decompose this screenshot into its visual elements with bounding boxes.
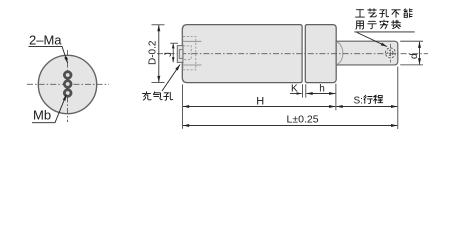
glyph 气 [153,92,162,100]
note 工艺孔不能/用于安装 [356,9,413,29]
inner tube line bottom [183,64,202,66]
glyph 工 [356,10,365,17]
glyph 装 [392,20,401,28]
hidden bore dashed outer [183,37,196,70]
rod end ellipse arc [337,42,343,64]
glyph 能 [404,9,412,17]
svg-text:d: d [409,53,420,59]
dimension J line [172,43,174,62]
glyph 行 [364,95,373,103]
svg-text:H: H [256,96,264,108]
dimension h line [307,93,336,95]
glyph 不 [392,10,400,17]
process hole dashed inner circle [388,50,393,55]
svg-text:L±0.25: L±0.25 [287,113,319,125]
svg-text:K: K [291,83,298,94]
K extension tick right [305,84,307,97]
dimension d line [419,42,421,65]
glyph 孔(note) [380,9,389,17]
hole Ma middle [63,80,72,89]
glyph 充 [143,92,152,100]
dimension D-0.2 extension tick bottom [152,82,165,84]
leader K arrow [290,93,302,95]
glyph 艺 [368,9,376,17]
svg-text:h: h [319,83,325,94]
dimension d extension bottom [400,64,423,66]
charging port inner [179,50,183,59]
piston rod [336,41,398,65]
leader note to process hole [357,32,387,46]
dimension H line [183,106,335,108]
centerline vertical (left view) [67,50,69,122]
hidden bore dashed inner [183,46,191,60]
body end-view circle [38,55,96,113]
glyph 于 [368,21,377,28]
process hole dashed outer circle [385,48,395,58]
hole Ma top [63,71,72,80]
glyph 孔 [164,92,173,100]
leader Mb [32,94,66,122]
svg-text:S:: S: [354,95,363,106]
svg-text:2–Ma: 2–Ma [29,33,62,48]
H extension line left [181,84,183,128]
inner tube line top [183,40,202,42]
dimension J tick top [170,42,178,44]
cylinder body [182,25,302,83]
dimension d extension top [400,40,423,42]
process hole vertical centerline [389,44,391,63]
collar after groove [305,25,336,83]
charging port outer [177,46,183,63]
label 充气孔 [143,92,173,101]
note underline [354,31,414,33]
centerline horizontal (side view) [157,53,428,55]
dimension S line [337,106,398,108]
dimension D-0.2 extension tick top [152,24,165,26]
leader 2-Ma [29,46,68,63]
glyph 程 [373,95,382,103]
H extension line right [335,84,337,111]
glyph 用 [356,21,364,29]
dimension L line [183,125,397,127]
svg-text:Mb: Mb [33,108,51,123]
hole Mb bottom [63,89,72,98]
dimension D-0.2 line [158,25,160,82]
glyph 安 [380,20,388,28]
svg-text:D-0.2: D-0.2 [148,40,159,65]
svg-text:J: J [163,52,173,57]
leader 充气孔 to port [162,65,180,92]
centerline horizontal (left view) [27,83,109,85]
S extension line right [397,67,399,130]
K extension tick left [301,84,303,97]
